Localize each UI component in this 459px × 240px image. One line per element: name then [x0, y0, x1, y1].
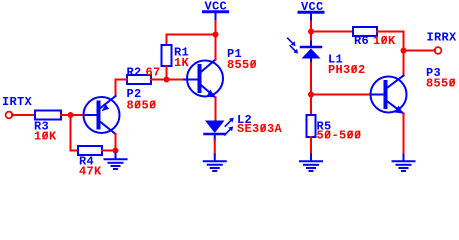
terminal IRRX: [427, 31, 458, 54]
wire R4 right to node B: [102, 150, 116, 152]
wire node B to ground: [115, 151, 117, 154]
resistor R2: [127, 65, 161, 84]
wire R6 right to corner and down to node C: [377, 32, 404, 51]
svg-text:67: 67: [146, 65, 161, 79]
transistor P1: [184, 47, 257, 98]
wire node D down to R5: [310, 95, 312, 116]
wire R5 to ground: [310, 137, 312, 155]
wire IRTX to R3: [12, 114, 35, 116]
power symbol VCC (right): [299, 0, 324, 22]
wire node A down to R4: [71, 115, 79, 151]
ground under P2: [105, 154, 127, 170]
node junction right VCC rail: [308, 29, 314, 35]
wire R1 bottom to node: [166, 66, 168, 80]
wire L1 down to node D: [310, 63, 312, 95]
wire node A to P2 base: [71, 114, 87, 116]
power symbol VCC (left): [204, 0, 228, 21]
node D junction: [308, 92, 314, 98]
svg-text:10K: 10K: [34, 130, 57, 144]
node C junction: [401, 48, 407, 54]
transistor P3: [371, 66, 457, 114]
wire VCC node down to L1: [310, 32, 312, 42]
wire node to R1 top: [167, 35, 216, 46]
wire node to R6: [311, 31, 353, 33]
wire VCC-left down to node: [215, 21, 217, 35]
wire node to P1 base: [167, 79, 185, 81]
svg-text:10K: 10K: [373, 34, 396, 48]
ground under R5: [300, 155, 322, 172]
node A junction: [68, 112, 74, 118]
svg-text:IRTX: IRTX: [2, 95, 33, 109]
slashed zeros overlay: [43, 37, 454, 139]
svg-text:SE303A: SE303A: [237, 122, 283, 136]
svg-text:PH302: PH302: [328, 63, 366, 77]
resistor R6: [353, 27, 396, 48]
resistor R5: [307, 115, 362, 143]
node B junction: [113, 148, 119, 154]
wire node D to P3 base: [311, 94, 372, 96]
wire P1 emitter up to node: [215, 35, 217, 60]
svg-text:47K: 47K: [79, 165, 102, 178]
wire P1 collector down to L2: [215, 98, 217, 121]
wire R2 right to node: [151, 79, 167, 81]
svg-text:IRRX: IRRX: [427, 31, 458, 45]
LED L2: [205, 113, 283, 140]
node junction R1/R2/P1 base: [164, 77, 170, 83]
photodiode L1: [288, 38, 366, 77]
ground under P3: [393, 155, 415, 172]
node junction at left VCC rail: [213, 32, 219, 38]
wire R2 left to P2 collector rail: [116, 80, 128, 97]
wire P3 emitter to ground: [403, 114, 405, 155]
resistor R1: [162, 45, 190, 70]
wire VCC-right down to node: [310, 22, 312, 32]
ground under L2: [204, 155, 226, 172]
wire L2 to ground: [214, 140, 216, 155]
svg-text:R2: R2: [127, 65, 142, 79]
wire node C down to P3 collector: [403, 51, 405, 76]
wire P2 emitter down to node B: [115, 134, 117, 151]
wire R3 to node A: [61, 114, 71, 116]
svg-text:1K: 1K: [174, 56, 190, 70]
svg-text:R6: R6: [354, 34, 369, 48]
resistor R3: [34, 111, 61, 144]
resistor R4: [78, 146, 102, 179]
transistor P2: [84, 87, 157, 134]
wire node C to IRRX: [404, 50, 436, 52]
terminal IRTX: [2, 95, 33, 118]
svg-text:50-500: 50-500: [317, 129, 362, 143]
